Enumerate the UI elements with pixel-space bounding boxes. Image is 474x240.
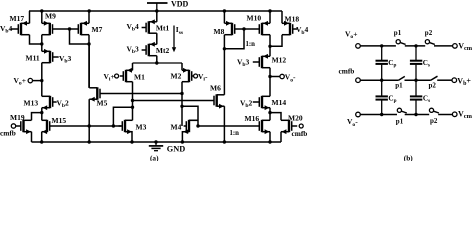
junction dot gate wire / M3 gate loop bbox=[112, 124, 115, 127]
wire Mt2 drain to tail node bbox=[156, 56, 158, 63]
wire node to M15 drain bbox=[41, 113, 43, 121]
terminal Vi+ bbox=[115, 74, 119, 78]
terminal Vo+ (b) bbox=[356, 44, 361, 49]
switch p1 row3 bbox=[397, 108, 407, 113]
wire M20 source to ground bbox=[280, 132, 282, 142]
svg-text:1:n: 1:n bbox=[246, 41, 256, 48]
VDD power symbol bbox=[147, 0, 189, 11]
junction dot V2 / M5 gate wire bbox=[180, 92, 183, 95]
svg-text:Mt1: Mt1 bbox=[156, 23, 170, 32]
wire row1 Vo+ to switch p1 bbox=[360, 45, 396, 47]
svg-text:(b): (b) bbox=[404, 153, 413, 161]
junction dot VDD rail / M9 source bbox=[40, 9, 43, 12]
capacitor Cp upper bbox=[376, 46, 388, 80]
wire M18 drain down-left bbox=[270, 35, 282, 47]
junction dot VDD rail / M7 source bbox=[88, 9, 91, 12]
svg-text:M9: M9 bbox=[45, 11, 56, 20]
wire M5 drain up (to M7) bbox=[88, 44, 90, 88]
wire VDD rail bbox=[29, 10, 282, 12]
svg-text:M6: M6 bbox=[210, 84, 221, 93]
wire gate node down to M7 drain bbox=[70, 29, 90, 44]
junction dot M10/M18 drains / M12 source bbox=[268, 45, 271, 48]
terminal cmfb (b) bbox=[356, 78, 361, 83]
transistor M14 bbox=[253, 96, 270, 110]
wire M15 gate to M3 gate bbox=[50, 125, 122, 127]
junction dot V1 / M6 gate wire bbox=[131, 99, 134, 102]
wire row3 switch p2 to Vcm bbox=[438, 114, 452, 116]
svg-text:1:n: 1:n bbox=[230, 130, 240, 137]
wire M11 drain down to M13 source (Vo+ branch) bbox=[41, 63, 43, 97]
wire M3 source to ground bbox=[125, 132, 132, 142]
svg-text:p1: p1 bbox=[395, 82, 403, 90]
terminal Vo+ bbox=[28, 78, 32, 82]
junction dot M8-M10 gate wire bbox=[242, 27, 245, 30]
switch p1 row1 bbox=[396, 40, 406, 45]
junction dot ground / M5 bbox=[88, 140, 91, 143]
wire M6 drain up to M8 drain bbox=[223, 35, 225, 95]
junction dot row3 / Cs bbox=[414, 113, 417, 116]
wire M9 drain down to M11 source bbox=[41, 35, 43, 52]
wire M14 drain down to mirror node bbox=[269, 108, 271, 113]
junction dot VDD rail / M8 source bbox=[223, 9, 226, 12]
wire M17 drain down-right to M9 drain bbox=[30, 35, 42, 44]
wire Mt1 source to rail bbox=[156, 11, 158, 22]
wire tail node rail bbox=[133, 62, 183, 64]
wire tail to M2 source bbox=[181, 63, 183, 70]
transistor M16 bbox=[259, 120, 270, 134]
transistor Mt2 bbox=[142, 42, 157, 56]
svg-text:cmfb: cmfb bbox=[0, 129, 16, 138]
wire M15 source to ground rail bbox=[41, 132, 43, 142]
svg-text:M1: M1 bbox=[134, 72, 145, 81]
wire M9 gate to M7 gate bbox=[53, 28, 79, 30]
terminal Vcm row3 bbox=[452, 112, 457, 117]
wire M18 source to rail bbox=[281, 11, 283, 23]
junction dot row1 / Cp bbox=[380, 44, 383, 47]
transistor M2 bbox=[182, 68, 195, 82]
junction dot row2 / Cs bbox=[414, 79, 417, 82]
transistor M11 bbox=[42, 49, 59, 63]
svg-text:M2: M2 bbox=[171, 72, 182, 81]
junction dot M7 drain / gate connection bbox=[87, 42, 90, 45]
wire tail to M1 source bbox=[132, 63, 134, 70]
wire M2 drain down to M4 gate bbox=[181, 82, 183, 126]
junction dot row3 / Cp bbox=[380, 113, 383, 116]
junction dot V2 / M4 drain loop bbox=[180, 105, 183, 108]
junction dot ground / M3 bbox=[130, 140, 133, 143]
wire row2 switch p2 to Vb+ bbox=[437, 79, 452, 81]
svg-text:M4: M4 bbox=[171, 122, 182, 131]
capacitor Cs upper bbox=[410, 46, 422, 80]
capacitor Cs lower bbox=[410, 80, 422, 114]
transistor M5 bbox=[89, 87, 100, 101]
terminal Vo- bbox=[280, 74, 284, 78]
svg-text:M3: M3 bbox=[136, 122, 147, 131]
svg-text:GND: GND bbox=[167, 144, 185, 153]
transistor M13 bbox=[42, 96, 57, 110]
transistor M20 bbox=[281, 120, 297, 134]
wire ground rail bbox=[32, 141, 282, 143]
transistor M8 bbox=[224, 21, 234, 35]
junction dot ground / M16 bbox=[268, 140, 271, 143]
transistor M7 bbox=[78, 21, 89, 35]
junction dot M8 drain / gate loop bbox=[223, 47, 226, 50]
wire node to M16 drain bbox=[269, 113, 271, 121]
svg-text:M16: M16 bbox=[245, 114, 260, 123]
junction dot Vo- node bbox=[268, 75, 271, 78]
svg-text:M12: M12 bbox=[272, 55, 287, 64]
svg-text:M10: M10 bbox=[247, 14, 262, 23]
wire M16 gate wire from M4 drain bbox=[198, 125, 259, 127]
wire M12 drain down to M14 (Vo- branch) bbox=[269, 68, 271, 97]
wire M5 source down to ground bbox=[88, 99, 90, 142]
junction dot M13/M19/M15 drain node bbox=[40, 111, 43, 114]
svg-text:p2: p2 bbox=[425, 29, 433, 37]
wire Mt1 drain to Mt2 source bbox=[156, 33, 158, 44]
wire gate loop to M8 drain bbox=[224, 29, 244, 49]
svg-text:M15: M15 bbox=[52, 116, 67, 125]
wire M5 gate to V2 bbox=[100, 93, 182, 95]
wire M17 source to rail bbox=[29, 11, 31, 23]
svg-text:M8: M8 bbox=[214, 27, 225, 36]
transistor M18 bbox=[282, 21, 297, 35]
wire M9 source to rail bbox=[41, 11, 43, 23]
junction dot M14/M16/M20 drain node bbox=[268, 111, 271, 114]
capacitor Cp lower bbox=[376, 80, 388, 114]
junction dot VDD rail / M10 source bbox=[268, 9, 271, 12]
wire M10 source to rail bbox=[269, 11, 271, 23]
transistor M12 bbox=[253, 54, 270, 68]
ground symbol GND bbox=[149, 142, 163, 151]
wire M12 source up bbox=[269, 46, 271, 56]
wire M6 gate to V1 bbox=[133, 100, 215, 102]
terminal cmfb right bbox=[299, 124, 303, 128]
transistor M6 bbox=[214, 94, 224, 108]
junction dot ground / M15 bbox=[40, 140, 43, 143]
wire M8 source to rail bbox=[223, 11, 225, 23]
switch p1 row2 bbox=[398, 76, 405, 80]
terminal Vb+ row2 bbox=[452, 78, 457, 83]
terminal Vcm row1 bbox=[453, 44, 458, 49]
junction dot row1 / Cs bbox=[414, 44, 417, 47]
junction dot ground / GND tap bbox=[154, 140, 157, 143]
svg-text:p2: p2 bbox=[429, 81, 437, 89]
svg-text:cmfb: cmfb bbox=[339, 66, 355, 75]
svg-text:M13: M13 bbox=[24, 98, 39, 107]
junction dot M4 drain / M16 gate wire bbox=[196, 124, 199, 127]
junction dot Vo+ node bbox=[40, 79, 43, 82]
wire M7 drain down to M5 drain bbox=[88, 35, 90, 88]
transistor M10 bbox=[259, 21, 270, 35]
svg-text:M5: M5 bbox=[97, 98, 108, 107]
wire M10 drain down bbox=[269, 35, 271, 47]
svg-text:M19: M19 bbox=[10, 113, 25, 122]
transistor M15 bbox=[42, 120, 50, 134]
switch p2 row1 bbox=[425, 40, 435, 45]
wire node to M19 drain bbox=[32, 113, 42, 121]
transistor M9 bbox=[42, 21, 53, 35]
svg-text:p2: p2 bbox=[430, 117, 438, 125]
svg-text:M17: M17 bbox=[10, 14, 25, 23]
wire M4 drain lead bbox=[189, 119, 198, 121]
junction dot row2 / Cp bbox=[380, 79, 383, 82]
svg-text:M14: M14 bbox=[272, 98, 287, 107]
switch p2 row3 bbox=[429, 108, 439, 113]
wire node to M20 drain bbox=[270, 113, 281, 121]
transistor M4 bbox=[184, 120, 198, 132]
wire row2 cmfb to switch p1 bbox=[360, 79, 398, 81]
wire row3 Vo- to switch p1 bbox=[360, 114, 397, 116]
transistor M17 bbox=[10, 21, 29, 35]
wire Vo- node to terminal bbox=[270, 76, 280, 78]
wire Vo+ terminal to branch bbox=[33, 80, 42, 82]
terminal Vi- bbox=[194, 74, 198, 78]
junction dot VDD rail / tail Mt1 source bbox=[155, 9, 158, 12]
transistor M1 bbox=[120, 68, 133, 82]
wire row1 switch p1 to switch p2 bbox=[405, 45, 425, 47]
junction dot V1 / M3 gate loop bbox=[131, 106, 134, 109]
svg-text:(a): (a) bbox=[150, 153, 159, 161]
wire M16 source to ground bbox=[269, 132, 271, 142]
wire M3 gate loop bbox=[113, 107, 132, 126]
svg-text:cmfb: cmfb bbox=[292, 129, 308, 138]
junction dot gate wire / M5 source bbox=[88, 124, 91, 127]
wire row3 switch p1 to switch p2 bbox=[405, 114, 430, 116]
wire M13 drain down to mirror node bbox=[41, 108, 43, 113]
wire M6 source down to ground bbox=[223, 106, 225, 142]
wire M8 gate to M10 gate bbox=[235, 28, 260, 30]
switch p2 row2 bbox=[431, 76, 438, 80]
svg-text:M11: M11 bbox=[26, 53, 40, 62]
junction dot ground / M6 bbox=[223, 140, 226, 143]
wire M4 drain loop bbox=[182, 106, 198, 126]
svg-text:M20: M20 bbox=[288, 114, 303, 123]
wire row2 switch p1 to switch p2 bbox=[405, 79, 431, 81]
wire M1 drain down to M3 drain bbox=[132, 82, 134, 121]
svg-text:p1: p1 bbox=[396, 117, 404, 125]
svg-text:Mt2: Mt2 bbox=[156, 46, 170, 55]
junction dot ground / M4 bbox=[181, 140, 184, 143]
wire row1 switch p2 to Vcm bbox=[434, 45, 453, 47]
wire M19 source to ground rail bbox=[31, 132, 33, 142]
transistor M3 bbox=[119, 120, 133, 134]
current arrow Iss bbox=[172, 26, 176, 53]
terminal Vo- (b) bbox=[356, 112, 361, 117]
svg-text:p1: p1 bbox=[394, 29, 402, 37]
svg-text:M7: M7 bbox=[92, 25, 103, 34]
svg-text:VDD: VDD bbox=[171, 0, 189, 9]
wire M7 source to rail bbox=[88, 11, 90, 23]
transistor Mt1 bbox=[142, 19, 157, 33]
junction dot M17/M9 drains bbox=[40, 42, 43, 45]
junction dot tail node bbox=[155, 61, 158, 64]
M4 source lead to ground bbox=[182, 129, 189, 142]
junction dot M9-M7 gate wire bbox=[68, 27, 71, 30]
svg-text:M18: M18 bbox=[285, 15, 300, 24]
terminal cmfb left bbox=[11, 124, 15, 128]
transistor M19 bbox=[16, 120, 32, 134]
